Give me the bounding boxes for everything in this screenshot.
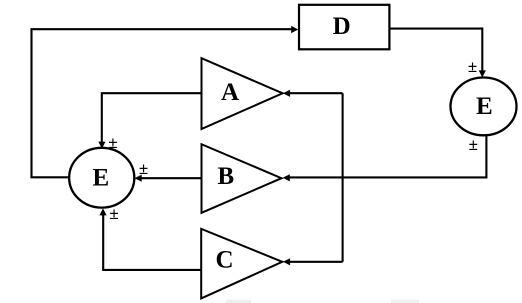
svg-text:E: E bbox=[93, 165, 110, 192]
wire: A output to E1 top input bbox=[98, 93, 201, 148]
wire: C output to E1 bottom input bbox=[99, 208, 201, 270]
svg-text:D: D bbox=[333, 13, 351, 40]
wire: vertical distribution line feeding amplifiers A and C bbox=[342, 93, 344, 262]
wire: B output to E1 right input bbox=[135, 175, 202, 182]
amplifier C bbox=[201, 229, 282, 299]
svg-text:±: ± bbox=[468, 57, 477, 76]
wire: branch to amplifier C input bbox=[283, 258, 343, 265]
wire: feedback loop from summing junction E1 left side, up and right to block D input bbox=[32, 26, 299, 177]
amplifier B bbox=[202, 144, 282, 213]
svg-text:A: A bbox=[221, 79, 239, 106]
svg-text:E: E bbox=[476, 93, 493, 120]
wire: branch to amplifier A input bbox=[283, 90, 343, 97]
svg-text:±: ± bbox=[109, 204, 118, 223]
wire: E2 output down and left to amplifier B input bbox=[283, 135, 487, 181]
faint cropped caption remnants at bottom edge bbox=[226, 300, 419, 303]
amplifier A bbox=[202, 58, 283, 129]
svg-text:C: C bbox=[215, 247, 233, 274]
svg-text:±: ± bbox=[469, 135, 478, 154]
summing junction E1 bbox=[69, 148, 134, 208]
svg-text:B: B bbox=[218, 163, 235, 190]
wire: block D output to summing junction E2 bbox=[389, 29, 486, 78]
block D bbox=[299, 5, 389, 50]
svg-text:±: ± bbox=[139, 159, 148, 178]
summing junction E2 bbox=[451, 78, 517, 136]
